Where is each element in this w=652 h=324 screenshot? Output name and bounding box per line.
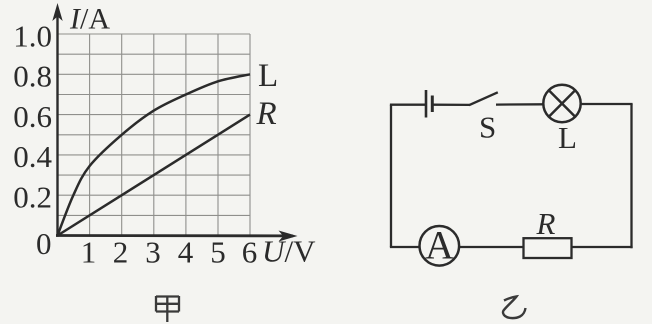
wire: lamp to top-right corner <box>581 103 633 105</box>
wire: switch to lamp <box>496 103 544 106</box>
wire: resistor to ammeter <box>460 246 524 248</box>
curve L (lamp I-U curve) <box>58 74 251 235</box>
svg-text:2: 2 <box>113 235 129 270</box>
svg-text:6: 6 <box>242 235 258 270</box>
circuit loop: right wire <box>630 104 632 248</box>
svg-text:1.0: 1.0 <box>13 18 52 53</box>
svg-text:0.8: 0.8 <box>13 59 52 94</box>
caption 乙 (drawn glyph) <box>503 297 526 319</box>
svg-text:U: U <box>262 234 287 269</box>
y-axis (I axis) with arrow <box>52 3 62 237</box>
grid of graph <box>58 34 251 236</box>
svg-text:0.6: 0.6 <box>13 99 52 134</box>
svg-text:0.2: 0.2 <box>13 180 52 215</box>
svg-text:L: L <box>258 58 278 94</box>
svg-text:0: 0 <box>36 226 52 261</box>
switch S lever (open) <box>469 92 498 105</box>
svg-text:R: R <box>256 96 277 132</box>
resistor R (rectangle) <box>524 238 572 258</box>
svg-text:4: 4 <box>178 235 194 270</box>
wire: bottom-right corner to resistor <box>572 246 633 248</box>
x-axis (U axis) with arrow <box>56 231 298 242</box>
battery: short plate <box>431 96 434 113</box>
svg-text:S: S <box>479 110 496 145</box>
svg-text:/V: /V <box>285 234 317 269</box>
svg-text:R: R <box>536 206 556 241</box>
svg-text:0.4: 0.4 <box>13 139 52 174</box>
battery: long plate <box>425 90 428 118</box>
svg-text:/A: /A <box>80 3 110 36</box>
wire top-left: corner to battery <box>390 104 426 106</box>
wire: ammeter to bottom-left corner <box>390 246 419 248</box>
ammeter A (circle) <box>420 226 460 266</box>
caption 甲 (drawn glyph) <box>156 296 179 322</box>
svg-text:1: 1 <box>81 235 97 270</box>
svg-text:5: 5 <box>210 235 226 270</box>
svg-text:A: A <box>425 223 454 268</box>
lamp L (circle with X) <box>543 85 580 122</box>
svg-text:L: L <box>558 120 577 155</box>
wire: battery to switch <box>432 104 469 107</box>
curve R (resistor I-U line) <box>58 115 251 236</box>
circuit loop: left wire <box>390 105 392 247</box>
svg-text:3: 3 <box>145 235 161 270</box>
